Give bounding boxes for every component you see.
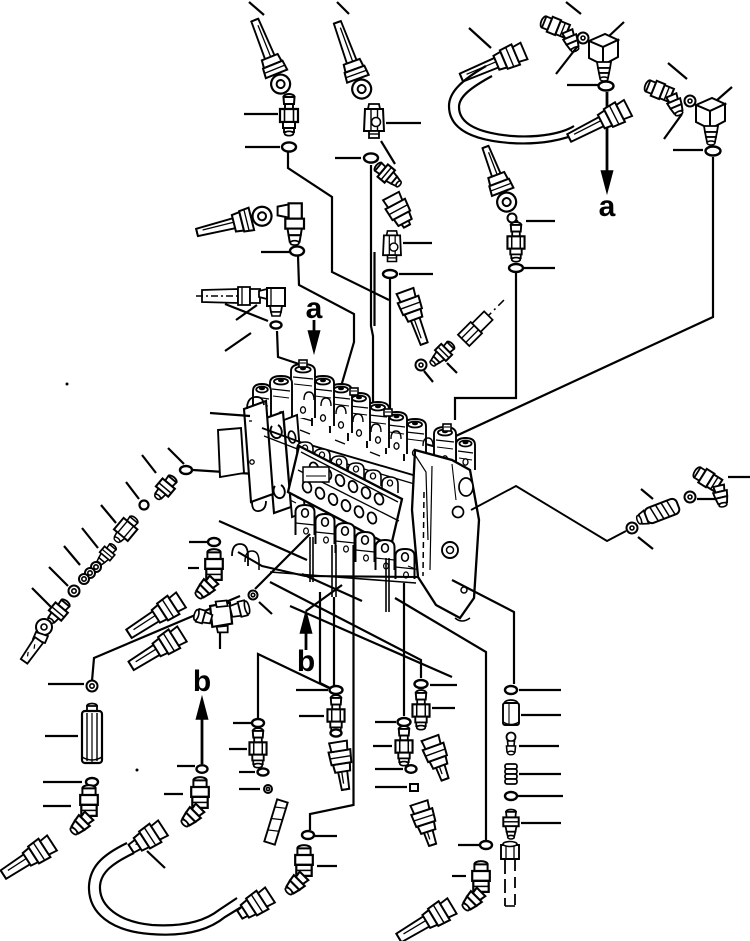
small ring (264, 785, 272, 793)
leader line elbow (164, 793, 183, 795)
adapter col1 (327, 695, 344, 735)
wire from O-ring to valve (288, 152, 389, 300)
leader line O-ring (43, 781, 82, 783)
O-ring chain right (416, 360, 427, 371)
leader line O-ring (239, 771, 255, 773)
leader line (373, 745, 392, 747)
arrow a2 down (313, 320, 316, 336)
cylinder accumulator (82, 704, 102, 764)
leader line (728, 476, 750, 478)
leader line small ring (239, 788, 260, 790)
barbed fitting chain (426, 338, 458, 370)
svg-text:a: a (306, 292, 323, 325)
O-ring under adapter col1 (331, 729, 342, 736)
hose H7 (381, 191, 416, 231)
leader line elbow (43, 805, 71, 807)
O-ring (406, 765, 417, 773)
O-ring below b2 (197, 765, 208, 773)
valve left end block (244, 401, 273, 502)
wire valve to small O-ring (255, 534, 310, 589)
small elbow block (259, 288, 285, 316)
leader line plug 2 (716, 87, 732, 101)
leader line O-ring (567, 84, 598, 86)
O-ring (383, 270, 397, 278)
O-ring (685, 492, 696, 503)
leader line (697, 498, 723, 500)
wire diagonal to b arrow tip (306, 585, 342, 611)
leader line O-ring (296, 689, 328, 691)
hose H3 with loop tube (457, 41, 528, 88)
adapter A3 (507, 222, 524, 262)
leader diagonal to plug (641, 489, 653, 499)
O-ring below A1 (282, 142, 296, 151)
hose H2 (327, 18, 376, 102)
O-ring under plug P1 (599, 82, 614, 91)
leader line adapter (299, 715, 324, 717)
hose H4 (564, 98, 633, 148)
O-ring under plug P2 (706, 147, 721, 156)
elbow fitting bottom (459, 861, 490, 914)
leader line right (432, 707, 455, 709)
barb fitting (503, 809, 518, 838)
leader line adapter A1 (244, 113, 278, 115)
hose H9 (327, 740, 356, 791)
leader diagonal chain 5 (64, 546, 80, 565)
leader line valve fitting A2 (386, 122, 421, 124)
leader diagonal chain 4 (82, 528, 98, 548)
dashed fitting with centerline (196, 287, 260, 305)
hose H12 (0, 834, 58, 884)
leader line hose H3 (469, 28, 491, 48)
leader line small fitting (526, 220, 555, 222)
arrow a down (606, 92, 609, 176)
b2 arrow up (201, 714, 204, 764)
leader line (519, 745, 559, 747)
hex connector with tube (501, 842, 519, 860)
leader line (375, 786, 407, 788)
long wire from O-ring down to valve (445, 157, 713, 441)
leader diagonal below elbow 2 (664, 114, 682, 139)
leader line (518, 795, 563, 797)
hose H1 (244, 16, 295, 97)
leader line O-ring (48, 683, 84, 685)
O-ring col4 (480, 841, 492, 849)
adapter A1 (280, 94, 298, 136)
dashed hidden tube (264, 799, 287, 844)
leader line O-ring c258 (233, 722, 251, 724)
adapter col2 (395, 726, 412, 766)
leader diagonal to O-ring (225, 304, 268, 321)
valve left flat plate (218, 428, 244, 477)
cylindrical fitting (503, 700, 519, 725)
valve right end block (412, 450, 479, 618)
wire down then to valve (455, 272, 516, 420)
O-ring col1 (330, 686, 343, 694)
speck dot (66, 383, 69, 386)
wire fitting to elbow (381, 141, 395, 164)
valve mid band (262, 428, 430, 480)
hose H16 (123, 591, 187, 643)
leader line O-ring (673, 149, 703, 151)
wire from O-ring down to valve (371, 165, 373, 428)
leader diagonal chain 7 (32, 588, 52, 608)
chain connector 1 (150, 472, 180, 503)
O-ring (86, 778, 98, 786)
leader line O-ring (177, 765, 195, 767)
wire valve to right column (452, 580, 514, 684)
tee fitting (192, 600, 251, 633)
O-ring below elbow block (271, 321, 282, 328)
O-ring col2 (398, 718, 411, 726)
wire leader stub hose H1 (249, 2, 264, 15)
O-ring (578, 33, 589, 44)
small O-ring (249, 591, 258, 600)
O-ring (302, 831, 314, 839)
wire valve diag to col x486 (395, 598, 486, 840)
svg-text:a: a (599, 190, 616, 223)
wire diagonal Da (302, 574, 362, 601)
elbow fitting top right 2 (638, 77, 693, 121)
O-ring (685, 96, 696, 107)
ribbed plug (634, 497, 680, 528)
leader line below tee (219, 633, 221, 649)
loop hose tube (449, 66, 580, 143)
leader diagonal to elbow block (236, 305, 257, 320)
chain O-ring 6 (69, 586, 80, 597)
wire along valve lower left (219, 521, 307, 560)
leader diagonal to loop hose (147, 851, 165, 868)
valve bottom spool caps (296, 505, 315, 535)
O-ring (258, 768, 269, 775)
hose H5 (475, 143, 521, 215)
valve left end plate C (284, 415, 305, 517)
elbow fitting mid (178, 777, 209, 830)
O-ring below A3 (509, 264, 523, 272)
chain connector 7 (43, 596, 73, 627)
leader line elbow E-top2 (668, 63, 687, 79)
leader line fitting A4 (403, 242, 432, 244)
leader line O-ring (245, 146, 280, 148)
leader diagonal (259, 602, 272, 614)
wire valve down col x356 long (310, 545, 354, 830)
hex nut with dash-dot tube (458, 294, 510, 346)
leader line (375, 721, 396, 723)
square head plug P2 (696, 98, 725, 145)
small barb fitting (507, 733, 516, 755)
leader diagonal to O-ring (225, 333, 251, 351)
O-ring col c258 (252, 719, 264, 727)
adapter col c258 (249, 728, 266, 768)
wire leader stub hose H2 (337, 2, 349, 14)
leader line adapter c258 (229, 748, 247, 750)
leader diagonal (424, 371, 433, 382)
leader line (452, 875, 466, 877)
barbed elbow fitting below A2 (371, 159, 405, 191)
valve front panel (288, 446, 402, 546)
leader line O-ring (335, 157, 361, 159)
leader diagonal chain 6 (49, 567, 68, 586)
O-ring below A2 (364, 153, 378, 162)
hose H10 (420, 734, 456, 783)
wire diagonal Dc (290, 606, 452, 677)
leader diagonal (447, 363, 457, 373)
leader diagonal to O-ring (168, 448, 184, 464)
leader line O-ring (399, 273, 433, 275)
leader line (521, 822, 561, 824)
leader diagonal below elbow (556, 47, 577, 74)
O-ring (627, 523, 638, 534)
O-ring (505, 686, 517, 694)
banjo elbow chain end (20, 619, 52, 664)
hose H6 (194, 203, 274, 244)
leader line O-ring (189, 541, 211, 543)
hose H17 (125, 625, 188, 675)
chain O-ring 2 (140, 501, 149, 510)
wire valve down col x320 (320, 592, 330, 688)
leader line (375, 768, 403, 770)
fitting A4 (383, 231, 401, 262)
wire valve to col x404 (403, 583, 405, 716)
leader diagonal chain 2 (126, 482, 139, 499)
svg-text:b: b (193, 665, 211, 698)
leader line (519, 689, 561, 691)
hose H11 (409, 800, 444, 849)
leader line cylinder (45, 735, 78, 737)
valve drain pipes (309, 537, 311, 582)
valve bottom edge (238, 552, 418, 577)
speck dot (136, 769, 139, 772)
leader line elbow E-top1 (566, 2, 581, 14)
O-ring (208, 538, 220, 546)
elbow fitting (282, 845, 313, 898)
small square O-ring (410, 784, 418, 791)
wire O-ring to valve (277, 331, 305, 366)
hose loop right end (234, 886, 276, 924)
chain hex adapter 3 (109, 512, 142, 547)
chain ring stack 5 (91, 562, 101, 572)
small fitting above A3 (508, 214, 518, 227)
chain barb fitting 4 (93, 541, 120, 569)
wire valve to bottom-left O-ring (92, 596, 240, 681)
adapter col3 (412, 690, 429, 730)
valve left end plate A (266, 412, 291, 513)
elbow fitting bottom-left (67, 785, 98, 838)
leader line right (430, 684, 457, 686)
leader line (519, 773, 561, 775)
elbow fitting E7 (278, 203, 304, 245)
elbow fitting top right 1 (534, 13, 589, 57)
O-ring below E7 (290, 246, 304, 255)
leader line to valve left end (210, 413, 250, 416)
leader diagonal chain 3 (101, 505, 116, 523)
wire from O-ring to valve (298, 256, 354, 390)
O-ring (505, 792, 517, 800)
wire valve down col x336 (333, 597, 335, 686)
wire down to valve (389, 279, 391, 425)
leader line elbow (188, 567, 199, 569)
loop hose bottom middle (125, 819, 169, 858)
O-ring col3 (415, 680, 428, 688)
elbow fitting cluster (192, 549, 223, 602)
O-ring (87, 681, 98, 692)
leader line plug (608, 22, 624, 37)
leader diagonal chain 1 (142, 455, 156, 473)
hose H15 (393, 897, 457, 941)
leader diagonal below O-ring (638, 537, 653, 549)
arrow b1 up (305, 628, 308, 650)
ribbed stack fitting (505, 764, 517, 784)
leader line O-ring (261, 251, 290, 253)
elbow fitting right (684, 464, 740, 513)
valve body main block (210, 360, 479, 621)
leader line right (317, 865, 337, 867)
leader line (521, 714, 561, 716)
valve fitting A2 (364, 104, 384, 138)
leader line O-ring (524, 267, 555, 269)
leader line right (314, 835, 337, 837)
hose H8 (395, 287, 435, 347)
wire valve to right cluster (471, 486, 626, 541)
wire valve to col x421 (270, 582, 421, 678)
square head plug P1 (589, 34, 618, 81)
O-ring with wire to valve plate (180, 466, 192, 474)
leader line (458, 844, 479, 846)
wire short parallel (373, 252, 375, 326)
wire stem col x258 (258, 654, 329, 718)
